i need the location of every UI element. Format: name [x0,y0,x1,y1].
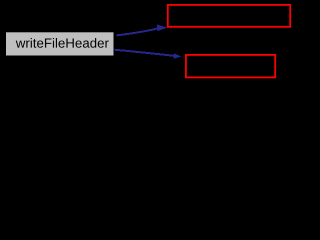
edge writeFileHeader -> bottom node [115,50,175,56]
arrowhead of bottom edge [174,53,182,59]
node writeFileHeader (current, grey) [6,32,114,55]
arrowhead of top edge [157,24,167,31]
label writeFileHeader [16,38,109,48]
node bottom (red border, truncated) [186,55,275,78]
call graph: writeFileHeader [0,0,297,88]
edge writeFileHeader -> top node [117,28,159,35]
node top (red border, truncated) [168,5,290,27]
